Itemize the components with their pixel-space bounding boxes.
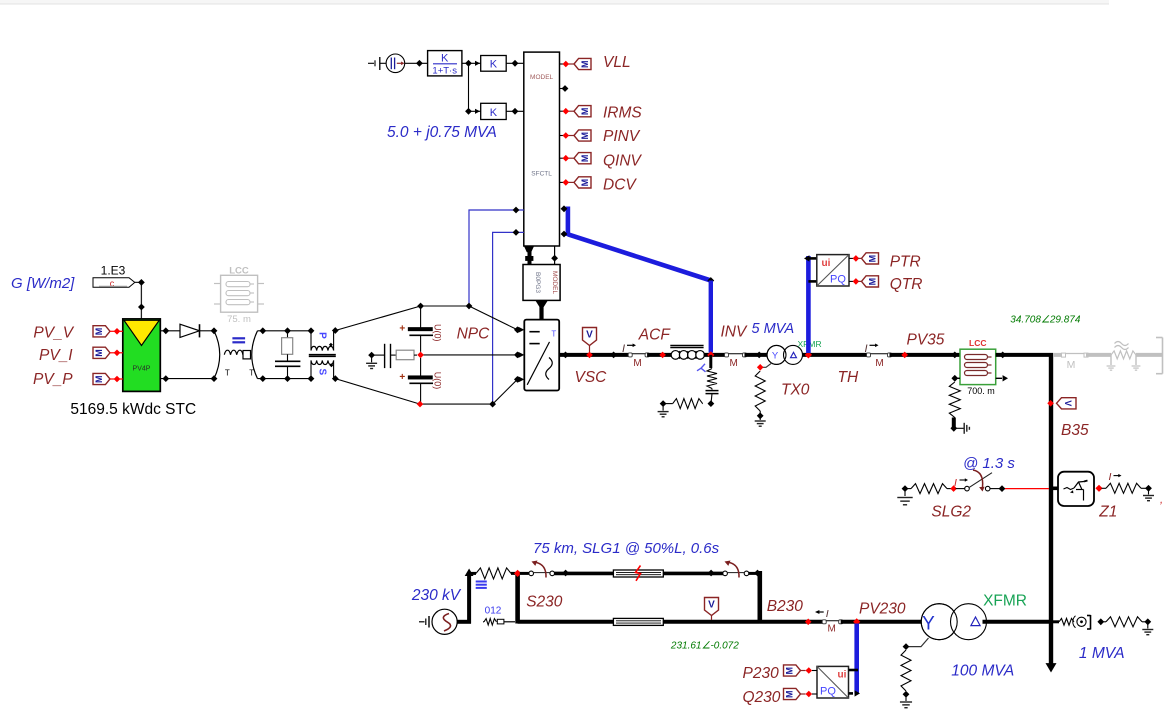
output pin wire QINV — [560, 157, 564, 159]
svg-text:U(0): U(0) — [433, 324, 443, 342]
svg-text:V: V — [708, 600, 715, 611]
stub bus to load — [1053, 620, 1059, 623]
svg-text:PV_V: PV_V — [33, 325, 74, 342]
stem SFCTL to B0PG3 left — [524, 246, 534, 252]
svg-text:SFCTL: SFCTL — [531, 171, 552, 178]
svg-text:NPC: NPC — [457, 326, 491, 343]
fault block Z1 — [1058, 472, 1094, 506]
wire line2 to B230 — [663, 620, 760, 624]
svg-text:XFMR: XFMR — [983, 593, 1027, 610]
svg-text:K: K — [490, 107, 498, 119]
svg-text:Y: Y — [772, 351, 779, 362]
tag PV_V — [93, 326, 110, 337]
transformer TX0 — [767, 345, 786, 364]
svg-text:I: I — [865, 343, 868, 355]
node PV230 — [853, 618, 860, 625]
shunt filter at INV — [709, 355, 712, 368]
node LCC left — [951, 352, 958, 359]
Z1 resistor — [1102, 487, 1107, 489]
node QTR pin — [853, 278, 860, 285]
stub bus to Z1 — [1051, 486, 1058, 490]
svg-text:ACF: ACF — [638, 327, 672, 344]
node filter top — [284, 327, 291, 334]
svg-text:INV: INV — [721, 324, 749, 341]
svg-text:P230: P230 — [743, 665, 780, 682]
node TX0 neutral — [757, 364, 764, 371]
svg-text:MODEL: MODEL — [530, 74, 554, 81]
wire lag block output — [462, 62, 481, 64]
node SLG2 ground end — [902, 485, 909, 492]
input arrow K2 — [475, 109, 480, 114]
src impedance top resistor — [469, 572, 476, 575]
wire BRK1b to B230 — [749, 572, 761, 575]
lag block K/(1+T s) — [428, 51, 462, 76]
node gate bus top pin — [561, 205, 568, 212]
disabled line LCC (faded) — [221, 275, 258, 312]
ground XFMR neutral — [905, 694, 907, 701]
node after source — [416, 60, 423, 67]
converter VSC — [524, 320, 559, 391]
svg-text:M: M — [580, 60, 590, 68]
node ctl2 pin — [513, 229, 520, 236]
svg-text:V: V — [586, 330, 593, 341]
node PV35 — [901, 352, 908, 359]
bus VSC to meter1 — [559, 353, 629, 357]
wire K1 to SFCTL — [506, 62, 524, 64]
node bus3 — [756, 352, 763, 359]
shunt damping resistor — [702, 403, 704, 405]
node bus1 — [562, 352, 569, 359]
node P230 pin — [806, 667, 813, 674]
svg-text:I: I — [1109, 471, 1112, 483]
node PV_V — [114, 328, 121, 335]
svg-text:PQ: PQ — [820, 686, 836, 698]
PQ M1 bottom pin — [808, 280, 816, 283]
stem B0PG3 to VSC — [535, 300, 548, 307]
wire B230 to meter4 — [760, 620, 824, 624]
node PV230 left — [805, 619, 812, 626]
bus S230 — [515, 572, 520, 624]
dc inductor L1 — [224, 350, 243, 355]
source S1 230kV — [432, 609, 457, 634]
breaker BRK1b — [723, 571, 728, 576]
bus INV to TX0 — [745, 353, 769, 357]
svg-text:V: V — [1063, 400, 1073, 406]
node right stem — [551, 255, 558, 262]
line section L1 (faulted) — [613, 570, 663, 577]
node S230 top — [514, 570, 521, 577]
svg-text:PV230: PV230 — [859, 601, 906, 618]
svg-text:VLL: VLL — [603, 54, 631, 71]
output pin wire VLL — [560, 63, 564, 65]
source E1 (signal source circle) — [386, 54, 405, 73]
svg-text:MODEL: MODEL — [551, 271, 558, 295]
ground load — [1147, 622, 1149, 629]
LCC shunt stub — [952, 418, 956, 428]
node load ground end — [1144, 618, 1151, 625]
svg-text:ui: ui — [822, 258, 831, 269]
wire branch down to gain K2 — [468, 63, 470, 111]
svg-text:M: M — [785, 690, 795, 698]
svg-text:5.0 + j0.75 MVA: 5.0 + j0.75 MVA — [387, 124, 497, 141]
node PV_I — [114, 350, 121, 357]
diode D1 — [180, 324, 200, 337]
wire blue ctl2 to NPC bottom rail — [493, 232, 524, 404]
node xfmr top-right — [332, 327, 339, 334]
label U(0) C1 — [433, 324, 443, 342]
node NPC bottom point — [417, 401, 424, 408]
tag QINV — [574, 153, 591, 164]
svg-text:75. m: 75. m — [227, 314, 251, 325]
LCC bottom-left pin — [955, 377, 960, 379]
xfmr T1 secondary — [311, 360, 334, 364]
label U(0) C2 — [433, 372, 443, 390]
svg-text:TH: TH — [838, 369, 859, 386]
wire K2 to SFCTL — [506, 110, 524, 112]
source S1 ground stub — [419, 621, 425, 623]
node Q230 pin — [806, 691, 813, 698]
ground SLG2 — [904, 489, 906, 496]
node Z1 ground end — [1145, 485, 1152, 492]
measure bus blue (INV) — [806, 256, 811, 353]
node SLG2 mid — [950, 485, 957, 492]
node NPC top-mid — [466, 303, 473, 310]
svg-text:T: T — [249, 369, 254, 378]
ground Z1 — [1148, 488, 1150, 494]
LCC shunt resistor — [949, 382, 960, 418]
wire BRK1a to line1 — [555, 572, 614, 576]
NPC mid rail — [421, 354, 518, 356]
load resistor R2 — [1101, 621, 1106, 623]
svg-text:U(0): U(0) — [433, 372, 443, 390]
output pin wire DCV — [560, 181, 564, 183]
svg-text:VSC: VSC — [575, 369, 608, 386]
svg-text:B0PG3: B0PG3 — [534, 272, 541, 293]
svg-text:S: S — [317, 368, 328, 375]
output pin wire PINV — [560, 135, 564, 137]
svg-text:1+T·s: 1+T·s — [432, 66, 457, 77]
ammeter I M (B230) — [824, 620, 841, 622]
svg-text:M: M — [868, 255, 878, 263]
node XFMR neutral bottom — [903, 691, 910, 698]
svg-text:SLG2: SLG2 — [931, 504, 971, 521]
PQ meter block M1 — [817, 255, 849, 286]
node B230 top — [754, 570, 761, 577]
measure bus blue (PV230) — [854, 624, 859, 694]
capacitor C1 + — [420, 306, 422, 328]
wire tag PV_I to PV — [110, 352, 123, 354]
svg-text:230 kV: 230 kV — [411, 587, 462, 604]
module U1 SFCTL — [524, 52, 560, 246]
ammeter M (INV right) — [727, 353, 745, 355]
svg-text:1.E3: 1.E3 — [101, 264, 126, 278]
node K2 out — [512, 108, 519, 115]
svg-text:TX0: TX0 — [781, 382, 810, 399]
svg-text:012: 012 — [485, 606, 502, 617]
PV array PV4P — [123, 319, 161, 392]
XFMR neutral — [909, 638, 929, 647]
svg-text:DCV: DCV — [603, 177, 637, 194]
stem SFCTL to B0PG3 right — [554, 246, 556, 265]
gain block K1 — [481, 56, 507, 72]
gain block K2 — [481, 103, 507, 119]
svg-text:LCC: LCC — [969, 338, 986, 348]
svg-text:PV35: PV35 — [907, 332, 945, 349]
wire blue ctl1 to NPC top rail — [469, 210, 524, 306]
bus meter3 to LCC — [890, 353, 961, 357]
wire S230 to line2 — [518, 620, 614, 624]
node on PV input wire — [138, 304, 145, 311]
svg-text:231.61∠-0.072: 231.61∠-0.072 — [670, 641, 739, 652]
svg-text:ui: ui — [838, 670, 847, 681]
svg-text:PV_I: PV_I — [39, 347, 73, 364]
svg-text:T: T — [225, 369, 230, 378]
PQ meter block M2 — [817, 666, 849, 698]
wire PV to diode — [160, 330, 180, 332]
filter ACF — [670, 345, 703, 347]
node XFMR neutral — [903, 643, 910, 650]
bus B35 bottom arrow — [1046, 663, 1057, 672]
svg-text:Q230: Q230 — [743, 689, 781, 706]
tag IRMS — [574, 106, 591, 117]
src impedance bottom resistor — [483, 621, 484, 623]
LCC bottom-right pin arrow — [996, 377, 1002, 379]
dc filter resistor — [287, 331, 289, 338]
unconnected pin row2 — [560, 88, 564, 90]
svg-text:QTR: QTR — [890, 276, 923, 293]
disabled bus section (gray) — [1053, 353, 1063, 357]
src bus vertical — [467, 573, 471, 623]
svg-text:M: M — [94, 375, 104, 383]
tag DCV — [574, 177, 591, 188]
bus B230 — [757, 571, 762, 624]
node shunt bottom — [708, 400, 715, 407]
svg-text:5 MVA: 5 MVA — [752, 321, 795, 337]
node QINV pin — [563, 155, 570, 162]
xfmr T1 primary — [310, 331, 312, 351]
svg-text:Z1: Z1 — [1098, 504, 1117, 521]
tag VLL — [574, 58, 591, 69]
svg-text:M: M — [1067, 359, 1076, 371]
voltmeter tag V (VSC) — [583, 328, 597, 346]
svg-text:I: I — [954, 477, 957, 489]
node before arc bottom — [211, 375, 218, 382]
node shunt res left — [660, 400, 667, 407]
node xfmr top-left — [308, 327, 315, 334]
voltmeter tag B35 — [1057, 398, 1077, 409]
load CT circle — [1077, 617, 1086, 626]
bus B35 vertical — [1049, 355, 1053, 666]
transformer XFMR 100MVA — [921, 604, 957, 640]
node DCV pin — [563, 179, 570, 186]
svg-text:B230: B230 — [767, 598, 804, 615]
tag PV_P — [93, 373, 110, 384]
node NPC bottom-mid — [489, 401, 496, 408]
PQ M2 left pins — [812, 670, 817, 672]
svg-text:M: M — [580, 155, 590, 163]
wire tag PV_P to PV — [110, 378, 123, 380]
tag Q230 — [784, 688, 801, 699]
svg-text:+: + — [399, 372, 405, 383]
node ctl1 pin — [513, 207, 520, 214]
tag PINV — [574, 130, 591, 141]
node K1 out — [512, 60, 519, 67]
svg-text:P: P — [317, 332, 328, 339]
ground shunt — [662, 404, 664, 411]
source E1 external ground stub — [368, 62, 374, 64]
svg-text:IRMS: IRMS — [603, 105, 642, 122]
wire source to lag block — [405, 62, 428, 64]
gate bus vertical to INV — [709, 281, 713, 353]
node xfmr bottom-right — [332, 375, 339, 382]
VSC input arrows — [518, 327, 524, 333]
collapse arc left — [214, 331, 220, 379]
canvas top border band — [0, 0, 1109, 4]
svg-text:,: , — [1160, 494, 1163, 506]
svg-text:PTR: PTR — [890, 254, 921, 271]
svg-text:M: M — [875, 358, 883, 369]
svg-text:K: K — [490, 59, 498, 71]
wire diode to arc — [200, 330, 215, 332]
ground TX0 — [759, 411, 761, 420]
svg-text:M: M — [94, 328, 104, 336]
bus meter1 to ACF — [647, 353, 671, 357]
svg-text:75 km, SLG1 @ 50%L, 0.6s: 75 km, SLG1 @ 50%L, 0.6s — [533, 540, 720, 557]
tag PTR — [862, 253, 879, 264]
svg-text:QINV: QINV — [603, 153, 643, 170]
breaker BRK2 — [956, 488, 965, 490]
wire 1.E3 tag to PV — [135, 282, 142, 319]
node filter bottom — [284, 375, 291, 382]
svg-text:M: M — [785, 667, 795, 675]
svg-text:I: I — [622, 343, 625, 355]
svg-text:+: + — [399, 324, 405, 335]
node bus2 — [610, 352, 617, 359]
svg-text:M: M — [868, 278, 878, 286]
node xfmr bottom-left — [308, 375, 315, 382]
svg-text:Y: Y — [922, 614, 935, 635]
line section L2 — [613, 618, 663, 625]
tag PV_I — [93, 347, 110, 358]
node PV out bottom — [162, 375, 169, 382]
wire meter4 to XFMR — [841, 620, 922, 624]
NPC bottom rail — [420, 403, 493, 405]
collapse arc right — [252, 331, 258, 379]
svg-text:K: K — [441, 53, 449, 65]
line block LCC 700m — [960, 349, 996, 384]
svg-text:M: M — [94, 349, 104, 357]
node V tag — [586, 352, 593, 359]
node NPC midpoint — [417, 352, 424, 359]
midpoint ground branch — [368, 352, 375, 359]
node IRMS pin — [563, 108, 570, 115]
ammeter I M (after VSC) — [630, 353, 647, 355]
node after arc top — [259, 327, 266, 334]
SLG2 resistor — [905, 488, 911, 490]
svg-text:I: I — [826, 608, 829, 620]
svg-text:G [W/m2]: G [W/m2] — [11, 275, 75, 292]
ammeter I M (TH) — [869, 353, 890, 355]
output pin wire IRMS — [560, 110, 564, 112]
NPC top rail — [421, 305, 469, 307]
xfmr T1 core — [309, 354, 336, 356]
svg-text:PV4P: PV4P — [133, 366, 151, 373]
node SLG2 out — [999, 485, 1006, 492]
node LCC right — [999, 352, 1006, 359]
svg-text:PV_P: PV_P — [33, 371, 73, 388]
node line1 left — [562, 570, 569, 577]
node VSC in mid — [514, 352, 521, 359]
node at tag output — [138, 279, 145, 286]
wire S230 to BRK1a — [520, 572, 529, 575]
gate bus vertical at SFCTL — [566, 207, 571, 237]
wire bottom rail diagonal to VSC — [493, 379, 518, 404]
label = (dc) — [232, 337, 245, 339]
node PINV pin — [563, 132, 570, 139]
node line1 right — [708, 570, 715, 577]
bus LCC to B35 — [996, 353, 1053, 357]
wire tag PV_V to PV — [110, 330, 123, 332]
svg-text:S230: S230 — [526, 594, 563, 611]
dc filter capacitor — [275, 360, 300, 362]
wire line1 to BRK1b — [663, 572, 723, 576]
svg-text:1 MVA: 1 MVA — [1079, 645, 1125, 662]
wire XFMR to main bus — [983, 620, 1050, 624]
svg-text:PQ: PQ — [830, 274, 846, 286]
breaker BRK1a — [529, 571, 534, 576]
node B35 tag — [1047, 400, 1054, 407]
node TX0-INVbus junction — [805, 351, 812, 358]
wire fan bottom — [335, 379, 420, 405]
node VSC in bottom — [514, 376, 521, 383]
svg-text:c: c — [110, 279, 115, 289]
node PTR pin — [853, 255, 860, 262]
bus ACF to INV — [704, 353, 726, 357]
PQ M1 right pins — [849, 257, 853, 259]
node gate bus corner — [707, 277, 714, 284]
dc switch block — [243, 351, 251, 359]
node lag output junction — [465, 60, 472, 67]
svg-text:PINV: PINV — [603, 128, 641, 145]
svg-text:5169.5 kWdc STC: 5169.5 kWdc STC — [70, 401, 196, 418]
load bracket — [1090, 615, 1092, 630]
node after arc bottom — [259, 375, 266, 382]
ground LCC (sideways) — [955, 427, 964, 429]
svg-text:B35: B35 — [1061, 422, 1089, 439]
svg-text:M: M — [633, 358, 641, 369]
svg-text:M: M — [580, 132, 590, 140]
module B0PG3 — [523, 265, 560, 301]
node VLL pin — [563, 61, 570, 68]
node PV_P — [114, 376, 121, 383]
TX0 neutral resistor — [755, 371, 765, 411]
node before arc top — [211, 327, 218, 334]
node PV out top — [162, 327, 169, 334]
svg-text:M: M — [828, 624, 836, 635]
node TX0 neutral bottom — [757, 412, 764, 419]
svg-text:700. m: 700. m — [967, 386, 995, 396]
capacitor C2 + — [420, 358, 422, 376]
svg-text:M: M — [580, 179, 590, 187]
node ACF left — [659, 352, 666, 359]
svg-text:@ 1.3 s: @ 1.3 s — [963, 455, 1015, 472]
PQ M2 right pins — [849, 669, 859, 672]
wire fan top — [335, 306, 420, 331]
TX0 neutral branch — [763, 363, 773, 368]
wire SLG2 to bus (red) — [1005, 488, 1049, 490]
svg-text:M: M — [730, 358, 738, 369]
wire top rail diagonal to VSC — [469, 306, 517, 330]
